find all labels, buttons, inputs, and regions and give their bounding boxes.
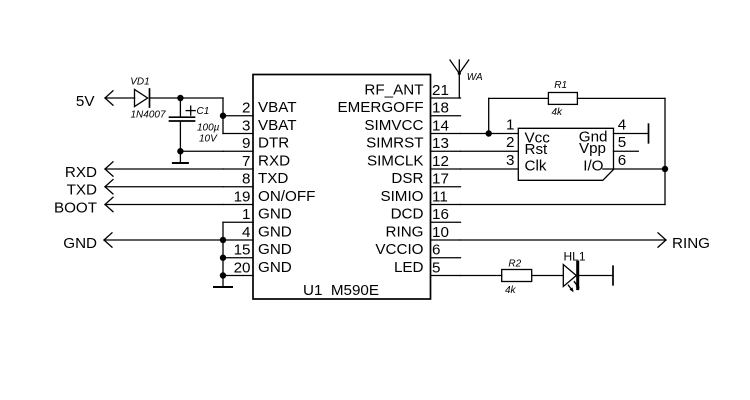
wire SIMRST to SIM pin 2 [461,150,519,152]
pin 9 DTR (left) [223,135,289,152]
svg-text:4k: 4k [552,107,564,118]
net label RXD [65,164,97,181]
wire GND bus vertical [222,222,224,287]
svg-text:18: 18 [432,100,449,117]
ground symbol bottom [214,286,232,288]
svg-text:5V: 5V [76,93,95,110]
svg-text:BOOT: BOOT [54,199,97,216]
svg-text:100µ: 100µ [197,123,220,134]
svg-text:GND: GND [63,235,97,252]
svg-text:RING: RING [386,223,424,240]
node junction I/O [662,166,668,172]
svg-text:9: 9 [242,135,250,152]
wire RING with arrow [461,233,667,247]
pin 1 GND (left) [223,206,292,223]
wire R1 right / I/O vertical [461,98,666,204]
SIM pin 3 number [506,152,514,169]
wire HL1 to terminator [579,266,613,285]
svg-text:13: 13 [432,135,449,152]
svg-text:1: 1 [506,116,514,133]
pin 21 RF_ANT (right) [364,81,460,98]
svg-text:TXD: TXD [67,182,97,199]
pin 14 SIMVCC (right) [364,117,460,134]
terminal TXD arrow [105,180,223,194]
SIM pin 1 number [506,116,514,133]
svg-text:14: 14 [432,117,449,134]
net label GND [63,235,97,252]
svg-text:1N4007: 1N4007 [131,110,166,121]
SIM pin 2 number [506,134,514,151]
node junction SIMVCC/R1 [486,130,492,136]
wire R1 left to SIMVCC [489,98,549,133]
svg-text:ON/OFF: ON/OFF [258,188,315,205]
svg-text:RXD: RXD [258,152,290,169]
svg-text:I/O: I/O [583,158,603,175]
svg-text:TXD: TXD [258,170,288,187]
svg-text:GND: GND [258,259,292,276]
svg-text:Vpp: Vpp [579,140,606,157]
svg-text:VBAT: VBAT [258,99,297,116]
svg-text:SIMIO: SIMIO [380,188,423,205]
pin 10 RING (right) [386,223,461,240]
pin 20 GND (left) [223,259,292,276]
net label TXD [67,182,97,199]
op-amp U1 M590E IC body [253,75,431,300]
pin 15 GND (left) [223,241,292,258]
svg-text:10V: 10V [199,134,218,145]
terminal 5V arrow [105,91,135,105]
svg-text:RXD: RXD [65,164,97,181]
svg-text:19: 19 [234,188,251,205]
terminal RXD arrow [105,162,223,176]
svg-text:GND: GND [258,241,292,258]
pin 6 VCCIO (right) [375,241,460,258]
wire 5V rail to corner [150,98,224,134]
svg-text:R2: R2 [508,259,521,270]
svg-text:15: 15 [234,242,251,259]
pin 4 GND (left) [223,223,292,240]
svg-text:16: 16 [432,206,449,223]
svg-text:5: 5 [618,134,626,151]
antenna WA [450,60,483,83]
svg-text:2: 2 [506,134,514,151]
node junction at pin 2 wire [220,113,226,119]
wire RF_ANT to antenna [458,73,460,98]
svg-text:SIMCLK: SIMCLK [367,152,424,169]
svg-text:VBAT: VBAT [258,117,297,134]
svg-text:3: 3 [242,117,250,134]
ground symbol below C1 [173,151,188,163]
svg-text:SIMRST: SIMRST [366,135,423,152]
svg-text:DCD: DCD [391,206,424,223]
pin 2 VBAT (left) [223,99,297,116]
svg-text:5: 5 [432,259,440,276]
resistor R2 4k [502,259,532,297]
resistor R1 4k [548,80,577,118]
wire pin5 LED to R2 [461,275,502,277]
capacitor C1 100u 10V [170,98,220,151]
diode VD1 1N4007 [130,77,166,121]
svg-text:RING: RING [672,235,710,252]
node junction GND pin 4 [220,237,226,243]
node junction at C1 top [177,95,183,101]
svg-text:1: 1 [242,206,250,223]
SIM card holder XS1 [518,128,613,180]
svg-text:RF_ANT: RF_ANT [364,81,423,98]
svg-text:GND: GND [258,206,292,223]
svg-text:20: 20 [234,259,251,276]
svg-text:Rst: Rst [525,141,549,158]
svg-text:4: 4 [242,224,250,241]
SIM pin 6 I/O wire [603,152,665,169]
pin 18 EMERGOFF (right) [337,99,460,116]
terminal BOOT arrow [105,197,223,211]
pin 17 DSR (right) [391,170,460,187]
wire R2 to HL1 [532,275,564,277]
svg-text:VCCIO: VCCIO [375,241,423,258]
svg-text:EMERGOFF: EMERGOFF [337,99,423,116]
net label BOOT [54,199,97,216]
svg-text:4: 4 [618,116,626,133]
svg-text:12: 12 [432,153,449,170]
svg-text:11: 11 [432,188,448,205]
wire SIMVCC to SIM pin 1 [461,133,519,135]
svg-text:6: 6 [432,242,440,259]
node junction GND pin 20 [220,272,226,278]
svg-text:17: 17 [432,171,449,188]
svg-text:HL1: HL1 [564,250,586,264]
pin 5 LED (right) [394,259,461,276]
svg-text:R1: R1 [554,80,567,91]
terminal GND arrow [104,233,223,247]
pin 12 SIMCLK (right) [367,152,461,169]
svg-text:3: 3 [506,152,514,169]
SIM pin 4 Gnd wire and terminator [614,116,649,143]
pin 7 RXD (left) [223,152,290,169]
svg-text:6: 6 [618,152,626,169]
svg-text:GND: GND [258,223,292,240]
SIM pin 5 Vpp stub [614,134,639,151]
svg-text:21: 21 [432,82,449,99]
wire DTR to C1 bottom [180,150,223,152]
svg-text:8: 8 [242,171,250,188]
svg-text:DTR: DTR [258,135,289,152]
svg-text:Clk: Clk [525,158,547,175]
node junction GND pin 15 [220,255,226,261]
pin 8 TXD (left) [223,170,288,187]
svg-text:SIMVCC: SIMVCC [364,117,423,134]
node junction at C1 bottom / DTR [177,148,183,154]
wire SIMCLK to SIM pin 3 [461,168,519,170]
LED HL1 [563,250,586,292]
pin 3 VBAT (left) [223,117,297,134]
svg-text:LED: LED [394,259,424,276]
svg-text:C1: C1 [197,106,210,117]
pin 11 SIMIO (right) [380,188,460,205]
net label 5V [76,93,95,110]
net label RING [672,235,710,252]
pin 13 SIMRST (right) [366,135,460,152]
svg-text:U1 M590E: U1 M590E [303,282,379,299]
pin 19 ON/OFF (left) [223,188,315,205]
svg-text:DSR: DSR [391,170,423,187]
svg-text:7: 7 [242,153,250,170]
svg-text:2: 2 [242,100,250,117]
svg-text:10: 10 [432,224,449,241]
pin 16 DCD (right) [391,206,461,223]
svg-text:4k: 4k [505,285,517,296]
svg-text:VD1: VD1 [130,77,149,88]
svg-text:WA: WA [467,72,483,83]
